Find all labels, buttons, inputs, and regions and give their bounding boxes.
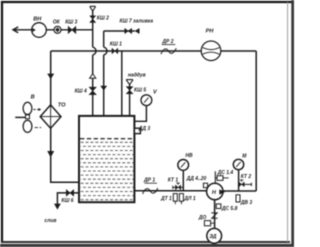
valve KSh2 (КШ 2) vertical — [90, 15, 109, 22]
flow arrow up on line A — [90, 74, 96, 79]
restrictor DR2 (ДР 2) — [161, 39, 176, 54]
wire: zalivka fill line y=31 — [104, 30, 135, 32]
svg-text:ДС 1.4: ДС 1.4 — [217, 170, 234, 176]
vacuum gauge V — [141, 89, 158, 105]
svg-text:КТ 1: КТ 1 — [168, 178, 179, 184]
svg-text:КШ 6: КШ 6 — [61, 198, 73, 204]
svg-text:ДД 3: ДД 3 — [138, 126, 151, 132]
drain arrow — [54, 204, 61, 210]
tank liquid hatching — [81, 142, 134, 199]
svg-text:ДВ 3: ДВ 3 — [240, 200, 253, 206]
flow arrow down (lower) — [47, 151, 54, 158]
svg-text:КШ 2: КШ 2 — [97, 15, 109, 21]
svg-text:ТО: ТО — [58, 102, 66, 108]
svg-text:наддув: наддув — [128, 72, 146, 78]
tank — [79, 116, 134, 202]
wire: main circulation line y=51 — [51, 50, 257, 52]
svg-text:ЭД: ЭД — [209, 234, 217, 240]
sensor DO (ДО) — [198, 215, 215, 226]
level sensor DD3 (ДД 3) on tank wall — [134, 126, 150, 133]
wire: M stem — [238, 170, 240, 191]
valve KSh4 (КШ 4) vertical — [75, 87, 97, 94]
sampling valve KT2 (КТ 2) — [239, 174, 252, 187]
svg-text:КШ 7 заливка: КШ 7 заливка — [120, 19, 154, 25]
valve KSh5 (КШ 5) vertical — [126, 87, 146, 94]
coupling zigzag — [211, 213, 217, 218]
valve KSh1 (КШ 1) — [110, 41, 122, 54]
gauge M (М) — [233, 154, 247, 170]
level sensor DL1 (ДЛ 1) — [179, 194, 195, 205]
wire: line B vertical x=103.7 — [104, 31, 107, 116]
gauge NV (НВ) — [178, 153, 193, 170]
vibration sensor DV3 (ДВ 3) — [236, 195, 252, 206]
pressure regulator RN (РН) — [201, 29, 221, 61]
vacuum pump VN (ВН) — [32, 17, 47, 38]
svg-text:КШ 1: КШ 1 — [110, 41, 122, 47]
svg-text:ОК: ОК — [53, 19, 61, 25]
flow arrow down (upper) — [47, 74, 54, 80]
wire: drain line — [57, 193, 79, 205]
wire: pump suction line y=190.8 — [134, 190, 206, 192]
svg-text:РН: РН — [206, 29, 215, 35]
sampling valve KT1 (КТ 1) — [168, 178, 184, 190]
check valve OK (ОК) — [53, 19, 61, 33]
svg-text:КШ 4: КШ 4 — [75, 89, 87, 95]
svg-text:В: В — [31, 95, 35, 101]
restrictor DR1 (ДР 1) — [143, 177, 158, 194]
heat exchanger TO (ТО) — [40, 102, 66, 128]
valve KSh6 (КШ 6) — [61, 190, 73, 205]
temp sensor DT1 (ДТ 1) — [160, 194, 177, 205]
funnel vent port — [90, 6, 96, 11]
electric motor ED (ЭД) — [207, 228, 222, 243]
wire: motor shaft — [214, 200, 216, 229]
svg-text:ДР 2: ДР 2 — [161, 39, 173, 45]
wire: suction line y=29.7 — [13, 29, 93, 31]
fan V (В) — [15, 95, 34, 133]
air flow dashed arrow upper — [33, 108, 41, 111]
wire: NV stem — [182, 170, 184, 191]
svg-text:ДЛ 1: ДЛ 1 — [183, 196, 195, 202]
svg-text:ДО: ДО — [198, 215, 207, 221]
wire: dip tube line C x=121.8 — [121, 51, 123, 148]
svg-text:ДТ 1: ДТ 1 — [160, 196, 172, 202]
wire: cooler loop left x=50.7 — [51, 51, 79, 182]
svg-text:ДР 1: ДР 1 — [143, 177, 155, 183]
svg-text:слив: слив — [44, 218, 56, 224]
flow arrow down on line B — [100, 86, 107, 91]
nadduv funnel — [126, 80, 133, 117]
svg-text:КШ 5: КШ 5 — [134, 87, 146, 93]
svg-text:ВН: ВН — [33, 17, 42, 23]
wire: V gauge stem — [135, 106, 147, 122]
tank liquid surface — [80, 138, 134, 140]
wire: discharge line y=191 — [222, 190, 256, 192]
valve KSh3 (КШ 3) — [65, 19, 77, 33]
air flow dash lower — [35, 127, 42, 129]
pressure switch DS1.4 (ДС 1.4) — [215, 170, 233, 183]
wire: line A vertical x=92.7 (vent line) — [93, 11, 96, 116]
pressure transmitter DD4-20 (ДД 4..20) — [186, 176, 210, 191]
speed sensor DS5.8 (ДС 5.8) — [216, 204, 237, 212]
svg-text:КШ 3: КШ 3 — [65, 19, 77, 25]
pump N (Н) — [207, 183, 226, 199]
svg-text:ДД 4..20: ДД 4..20 — [186, 176, 207, 182]
svg-text:ДС 5.8: ДС 5.8 — [221, 206, 238, 212]
svg-text:НВ: НВ — [185, 153, 193, 159]
node: open arrow left (atmosphere port) — [13, 27, 18, 33]
svg-text:КТ 2: КТ 2 — [241, 174, 252, 180]
wire: riser to RN x=256.2 — [255, 51, 257, 191]
valve KSh7 zalivka (КШ 7 заливка) — [120, 19, 154, 34]
